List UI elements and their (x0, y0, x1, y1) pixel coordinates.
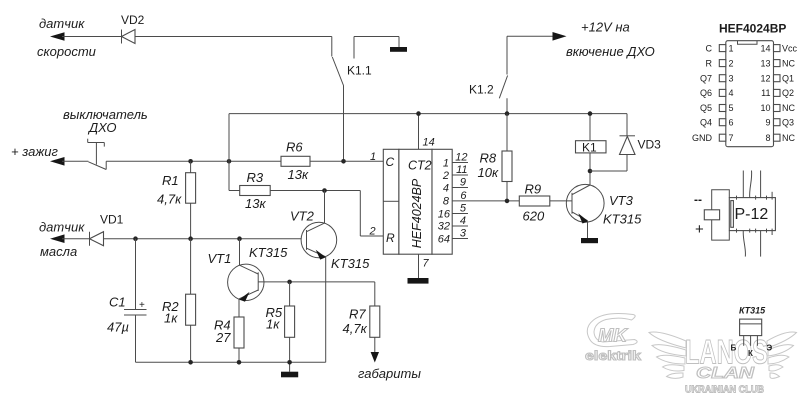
svg-text:K1: K1 (582, 141, 597, 155)
svg-text:C: C (386, 155, 395, 169)
svg-text:масла: масла (40, 244, 77, 259)
svg-text:K1.2: K1.2 (469, 83, 494, 97)
resistor R9 (519, 182, 550, 224)
node junction R8/R9 (505, 199, 510, 204)
relay contact K1.2 (469, 36, 508, 113)
transistor VT3 (566, 184, 642, 226)
relay coil K1 (576, 114, 607, 155)
svg-text:11: 11 (761, 88, 770, 98)
wire K1.1 common to pin 1 net (343, 86, 345, 162)
wire VT3 collector (589, 153, 591, 185)
svg-text:MK: MK (598, 326, 629, 346)
svg-text:64: 64 (438, 234, 450, 246)
resistor R7 (343, 282, 380, 353)
svg-text:10: 10 (760, 103, 770, 113)
svg-text:8: 8 (765, 133, 770, 143)
wire R3 to pin 2 (270, 191, 383, 237)
logo watermark CMK elektrik (585, 314, 641, 363)
resistor R8 (478, 114, 513, 201)
svg-text:ДХО: ДХО (87, 120, 117, 135)
wire VT3 emitter (587, 221, 589, 238)
pin 11 stub (452, 164, 468, 176)
svg-text:скорости: скорости (37, 44, 96, 59)
svg-text:R: R (706, 58, 713, 68)
pinout pin 1 / 14 (706, 43, 798, 53)
svg-text:NC: NC (782, 133, 795, 143)
svg-text:1: 1 (443, 158, 449, 170)
transistor package KT315 drawing (731, 306, 773, 359)
IC pinout diagram HEF4024BP (719, 22, 786, 147)
node junction rail R4 (237, 360, 242, 365)
node junction C1 (133, 236, 138, 241)
svg-text:GND: GND (692, 133, 713, 143)
svg-text:14: 14 (423, 137, 435, 149)
svg-text:10к: 10к (478, 165, 499, 180)
svg-text:К: К (748, 349, 753, 358)
svg-text:HEF4024BP: HEF4024BP (719, 22, 786, 36)
pinout pin 5 / 10 (700, 103, 796, 113)
svg-text:1к: 1к (266, 317, 280, 332)
svg-text:R8: R8 (480, 151, 497, 166)
relay contact K1.1 (332, 37, 372, 86)
svg-text:датчик: датчик (39, 16, 85, 31)
svg-text:6: 6 (460, 190, 467, 202)
svg-text:Q4: Q4 (700, 117, 712, 127)
svg-text:KT315: KT315 (331, 256, 370, 271)
svg-text:4,7к: 4,7к (343, 321, 368, 336)
svg-text:47µ: 47µ (107, 320, 129, 335)
capacitor C1 (107, 239, 147, 363)
svg-text:Q7: Q7 (700, 73, 712, 83)
svg-text:VD3: VD3 (638, 138, 662, 152)
svg-text:Q5: Q5 (700, 103, 712, 113)
wire VT1 collector (239, 239, 241, 266)
svg-text:+: + (139, 300, 145, 311)
pin 5 stub (452, 203, 468, 215)
node speed sensor arrow (датчик скорости) (37, 16, 96, 59)
node junction K1.2/R8 (505, 111, 510, 116)
IC output weight labels (438, 158, 451, 246)
svg-text:C: C (706, 43, 713, 53)
svg-text:Q1: Q1 (782, 73, 794, 83)
svg-text:3: 3 (460, 228, 467, 240)
svg-text:Э: Э (767, 344, 773, 353)
svg-text:VT2: VT2 (290, 209, 315, 224)
diode VD1 (90, 213, 124, 246)
node junction R1/R2 (188, 236, 193, 241)
wire speed sensor line (62, 36, 332, 38)
svg-text:C1: C1 (109, 295, 126, 310)
pinout pin 3 / 12 (700, 73, 794, 83)
resistor R3 (229, 161, 270, 211)
svg-text:VD1: VD1 (100, 213, 124, 227)
node +12V DRL arrow (507, 20, 655, 60)
node junction rail R2 (188, 360, 193, 365)
diode VD3 (590, 136, 661, 171)
relay module P-12 (729, 171, 775, 257)
diode VD2 (121, 13, 145, 44)
pinout pin 4 / 11 (700, 88, 794, 98)
svg-text:14: 14 (760, 43, 770, 53)
svg-text:KT315: KT315 (249, 245, 288, 260)
wire K1.1 to ground (354, 37, 399, 48)
svg-text:13к: 13к (288, 167, 309, 182)
svg-text:elektrik: elektrik (585, 349, 641, 363)
node junction K1 coil (588, 111, 593, 116)
svg-text:KT315: KT315 (603, 212, 642, 227)
svg-text:VT3: VT3 (609, 193, 634, 208)
pin 4 stub (452, 215, 468, 227)
svg-text:16: 16 (438, 209, 451, 221)
svg-text:3: 3 (729, 73, 734, 83)
wire VT2 collector (324, 191, 326, 224)
svg-text:K1.1: K1.1 (347, 64, 372, 78)
svg-text:Q2: Q2 (782, 88, 794, 98)
svg-text:8: 8 (443, 196, 450, 208)
svg-text:27: 27 (215, 330, 231, 345)
logo watermark LANOS text (685, 334, 768, 393)
svg-text:Vcc: Vcc (782, 43, 798, 53)
resistor R4 (214, 299, 244, 362)
IC U1 counter CT2 HEF4024BP (383, 149, 452, 254)
svg-text:R7: R7 (349, 307, 366, 322)
pin 7 wire (419, 254, 430, 278)
node junction K1.1 / pin1 (341, 159, 346, 164)
node junction pin14 (416, 111, 421, 116)
svg-text:7: 7 (423, 258, 430, 270)
svg-text:NC: NC (782, 103, 795, 113)
svg-text:R1: R1 (162, 173, 179, 188)
svg-text:2: 2 (729, 58, 734, 68)
svg-text:датчик: датчик (39, 220, 85, 235)
node junction VT3/VD3 (588, 169, 593, 174)
node junction VT2 collector (322, 188, 327, 193)
svg-text:КТ315: КТ315 (739, 306, 766, 316)
switch DRL (выключатель ДХО) (63, 107, 148, 170)
pin 14 wire (419, 114, 435, 150)
wire +12V switched rail (229, 114, 627, 162)
pinout pin 6 / 9 (700, 117, 794, 127)
svg-text:9: 9 (765, 117, 770, 127)
resistor R2 (162, 239, 196, 363)
resistor R1 (157, 161, 196, 238)
svg-text:CT2: CT2 (408, 159, 432, 173)
pin 6 stub (460, 190, 467, 202)
pin 3 stub (452, 228, 468, 240)
node junction rail R5 (287, 360, 292, 365)
svg-text:+ зажиг: + зажиг (11, 144, 59, 159)
svg-text:12: 12 (455, 152, 467, 164)
ground top (K1.1 NC terminal) (390, 47, 407, 52)
resistor R5 (266, 282, 295, 372)
svg-text:VT1: VT1 (208, 251, 232, 266)
svg-text:+: + (695, 221, 704, 238)
svg-text:UKRAINIAN CLUB: UKRAINIAN CLUB (685, 384, 764, 393)
pin 9 stub (452, 177, 468, 189)
svg-text:1: 1 (370, 151, 376, 163)
svg-text:4: 4 (460, 215, 466, 227)
wire VT2 emitter to rail (325, 257, 327, 362)
svg-text:--: -- (694, 193, 702, 207)
svg-text:P-12: P-12 (735, 206, 769, 223)
ground VT3 emitter (581, 238, 598, 243)
pinout pin 7 / 8 (692, 133, 795, 143)
svg-text:7: 7 (729, 133, 734, 143)
svg-text:Q3: Q3 (782, 117, 794, 127)
svg-text:VD2: VD2 (121, 13, 145, 27)
pinout pin 2 / 13 (706, 58, 796, 68)
wire VT1 base line (258, 281, 375, 283)
node +ignition arrow (+ зажиг) (11, 144, 65, 166)
ground IC pin7 (408, 278, 429, 284)
svg-text:R3: R3 (247, 170, 264, 185)
wire oil sensor line (62, 238, 301, 240)
pin 12 stub (452, 152, 468, 164)
svg-text:NC: NC (782, 58, 795, 68)
svg-text:12: 12 (760, 73, 770, 83)
wire ignition line (62, 160, 383, 162)
node oil sensor arrow (датчик масла) (39, 220, 85, 260)
svg-text:1к: 1к (164, 311, 178, 326)
svg-text:R9: R9 (525, 182, 542, 197)
svg-text:13: 13 (760, 58, 770, 68)
svg-text:32: 32 (438, 221, 450, 233)
transistor VT1 (208, 245, 289, 302)
svg-text:11: 11 (456, 164, 467, 176)
svg-text:Q6: Q6 (700, 88, 712, 98)
wire pin6 output net (452, 200, 571, 202)
relay module P-12 coil terminal (694, 190, 729, 240)
svg-text:2: 2 (369, 226, 376, 238)
svg-text:габариты: габариты (358, 366, 421, 381)
svg-text:620: 620 (523, 209, 545, 224)
node junction R1 top (188, 159, 193, 164)
svg-text:1: 1 (729, 43, 734, 53)
svg-text:4: 4 (729, 88, 734, 98)
resistor R6 (281, 140, 310, 183)
svg-text:R: R (386, 231, 395, 245)
svg-text:6: 6 (729, 117, 734, 127)
node junction VT1 collector (237, 236, 242, 241)
svg-text:9: 9 (460, 177, 466, 189)
node junction +12V feed (227, 159, 232, 164)
svg-text:13к: 13к (245, 196, 266, 211)
ground bottom (R5) (281, 372, 298, 378)
node junction R5 top (287, 280, 292, 285)
svg-text:R6: R6 (286, 140, 303, 155)
svg-text:CLAN: CLAN (696, 365, 755, 382)
svg-text:Б: Б (731, 344, 737, 353)
svg-text:HEF4024BP: HEF4024BP (410, 178, 424, 248)
svg-text:5: 5 (460, 203, 467, 215)
svg-text:2: 2 (442, 170, 449, 182)
transistor VT2 (290, 209, 370, 272)
svg-text:4,7к: 4,7к (157, 192, 182, 207)
logo watermark LANOS wings (649, 332, 797, 378)
wire ground rail (136, 361, 326, 363)
svg-text:+12V на: +12V на (581, 20, 630, 35)
svg-text:вкючение ДХО: вкючение ДХО (566, 44, 655, 59)
svg-text:4: 4 (443, 183, 449, 195)
node lights arrow (габариты) (358, 352, 421, 381)
svg-text:5: 5 (729, 103, 734, 113)
